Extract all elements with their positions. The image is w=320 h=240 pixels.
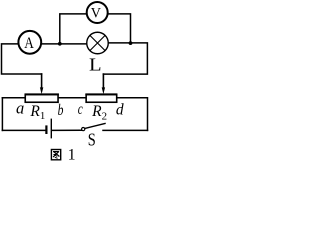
svg-text:b: b — [58, 102, 64, 119]
svg-text:a: a — [16, 99, 24, 118]
svg-text:d: d — [116, 102, 124, 119]
svg-text:S: S — [88, 129, 96, 149]
svg-text:A: A — [24, 35, 34, 52]
svg-text:L: L — [89, 55, 102, 75]
svg-text:1: 1 — [68, 147, 76, 164]
svg-text:c: c — [78, 101, 83, 118]
svg-text:V: V — [91, 5, 101, 21]
